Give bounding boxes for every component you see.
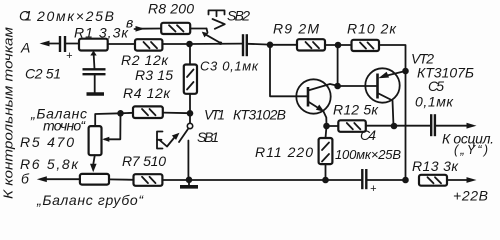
wire to VT2 base [338, 85, 377, 87]
node (R10 / VT2 emitter / +22V feed) [402, 68, 409, 75]
terminal в [126, 15, 161, 32]
node (VT2 collector / R12 / C5 output) [391, 123, 398, 130]
svg-text:R7 510: R7 510 [122, 153, 166, 169]
transistor VT1 [204, 79, 338, 126]
svg-text:R3 15: R3 15 [135, 67, 173, 83]
svg-text:К контрольным точкам: К контрольным точкам [2, 26, 16, 199]
capacitor C1 [19, 8, 114, 63]
node (R4 / R5 top / R5 wiper) [117, 110, 124, 117]
ground (below C2) [87, 92, 105, 95]
switch SB2 [202, 8, 250, 45]
output arrow "К осцил (Y)" [442, 123, 494, 157]
svg-text:R11 220: R11 220 [255, 144, 313, 160]
resistor R11 (vertical) [255, 126, 332, 180]
node (rail / SB1 / ground) [186, 177, 193, 184]
node (rail / R11) [322, 177, 329, 184]
node (rail / emitter feed / R13) [402, 177, 409, 184]
resistor R13 [412, 158, 468, 186]
resistor R9 [270, 21, 338, 51]
terminal A [20, 40, 59, 56]
svg-text:С5: С5 [428, 78, 444, 94]
svg-text:VT1: VT1 [204, 107, 225, 123]
wire bottom rail [189, 179, 326, 181]
potentiometer R5 "Баланс точно" [20, 106, 102, 173]
svg-text:R5 470: R5 470 [20, 134, 74, 150]
svg-text:+22В: +22В [453, 188, 488, 204]
resistor R10 [338, 21, 406, 72]
+22V supply arrow [453, 177, 488, 203]
svg-text:R2 12к: R2 12к [121, 52, 169, 68]
potentiometer R1 [74, 25, 129, 70]
svg-text:R4 12к: R4 12к [123, 85, 171, 101]
svg-text:КТ3102В: КТ3102В [233, 107, 286, 123]
resistor R7 [122, 153, 189, 186]
wire R6 to R7 [109, 178, 134, 180]
svg-text:20мк×25В: 20мк×25В [36, 8, 114, 24]
svg-text:А: А [20, 40, 30, 56]
potentiometer R6 "Баланс грубо" [20, 156, 144, 208]
resistor R3 (vertical) [135, 46, 197, 113]
svg-text:R10 2к: R10 2к [347, 21, 397, 37]
node (VT1 collector / VT2 base) [334, 83, 341, 90]
resistor R12 [327, 102, 394, 132]
node (R3 / R4 / SB1) [187, 110, 194, 117]
svg-text:R9 2М: R9 2М [273, 21, 319, 37]
svg-text:в: в [126, 15, 133, 31]
svg-text:100мк×25В: 100мк×25В [335, 147, 401, 162]
svg-text:КТ3107Б: КТ3107Б [417, 65, 474, 81]
resistor R2 [121, 39, 169, 68]
capacitor C5 [415, 78, 468, 136]
svg-text:+: + [66, 50, 73, 62]
node (C3 / R9 / VT1 base) [267, 42, 274, 49]
wire node down to VT1 base [270, 45, 308, 97]
transistor VT2 [365, 51, 474, 127]
svg-text:точно“: точно“ [43, 118, 86, 134]
wire node to C3 (under SB2) [190, 43, 243, 45]
svg-text:С4: С4 [360, 127, 376, 143]
capacitor C4 [326, 127, 406, 195]
svg-text:+: + [370, 183, 377, 195]
svg-text:С3 0,1мк: С3 0,1мк [200, 59, 259, 74]
svg-text:SB2: SB2 [227, 8, 250, 24]
capacitor C2 [25, 66, 106, 93]
node (main line / R3) [186, 41, 193, 48]
capacitor C3 [200, 34, 270, 73]
wire node down to R5 wiper [105, 113, 121, 139]
svg-text:0,1мк: 0,1мк [415, 94, 454, 110]
node (R9 / R10 / VT1 collector) [335, 42, 342, 49]
svg-text:R12 5к: R12 5к [333, 102, 379, 118]
svg-text:R6 5,8к: R6 5,8к [20, 156, 79, 172]
svg-text:R8 200: R8 200 [148, 1, 194, 17]
resistor R4 [123, 85, 190, 118]
svg-text:„Баланс грубо“: „Баланс грубо“ [36, 192, 144, 208]
wire R4 left to R5 top corner [95, 113, 133, 126]
ground (below SB1) [180, 180, 198, 187]
svg-text:С1: С1 [19, 8, 32, 24]
svg-text:С2 51: С2 51 [25, 66, 61, 82]
wire emitter node down to +22V rail (crosses output line) [405, 71, 407, 180]
wire collector node to C5 (crosses vertical) [394, 125, 431, 127]
wire R2 to node [162, 43, 189, 45]
svg-text:б: б [21, 171, 30, 187]
wire node down to collector junction [337, 45, 339, 86]
node (VT1 emitter / R12 / R11) [323, 123, 330, 130]
svg-text:R13 3к: R13 3к [412, 158, 459, 174]
svg-text:SB1: SB1 [197, 129, 219, 145]
resistor R8 [148, 1, 207, 35]
switch SB1 [157, 113, 219, 180]
wire R1 to R2 [108, 43, 135, 45]
terminal б [21, 171, 80, 187]
